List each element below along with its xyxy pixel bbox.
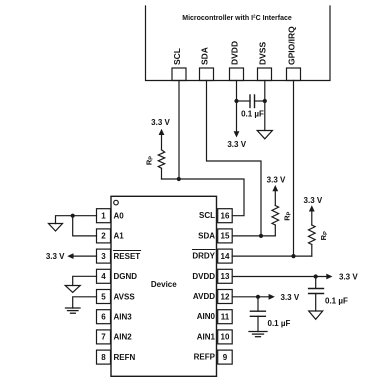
svg-text:RESET: RESET: [114, 252, 141, 261]
svg-text:DVDD: DVDD: [230, 41, 240, 65]
svg-text:AIN2: AIN2: [114, 333, 133, 342]
svg-text:A0: A0: [114, 212, 125, 221]
svg-text:3.3 V: 3.3 V: [304, 196, 323, 205]
svg-text:AVSS: AVSS: [114, 292, 136, 301]
svg-text:9: 9: [223, 353, 228, 362]
svg-text:0.1 µF: 0.1 µF: [268, 319, 291, 328]
svg-text:3.3 V: 3.3 V: [267, 176, 286, 185]
svg-text:2: 2: [101, 232, 106, 241]
svg-text:AVDD: AVDD: [193, 292, 215, 301]
svg-text:REFN: REFN: [114, 353, 136, 362]
svg-text:11: 11: [221, 313, 230, 322]
svg-text:DGND: DGND: [114, 272, 138, 281]
svg-text:SDA: SDA: [200, 47, 210, 65]
svg-text:AIN1: AIN1: [197, 332, 216, 341]
svg-text:1: 1: [101, 212, 106, 221]
svg-text:SCL: SCL: [172, 48, 182, 65]
svg-text:3: 3: [101, 252, 106, 261]
svg-text:6: 6: [101, 313, 106, 322]
svg-text:3.3 V: 3.3 V: [151, 118, 170, 127]
svg-text:10: 10: [221, 333, 230, 342]
svg-text:A1: A1: [114, 232, 125, 241]
svg-text:16: 16: [221, 212, 230, 221]
svg-text:AIN3: AIN3: [114, 313, 133, 322]
svg-text:DVDD: DVDD: [192, 272, 215, 281]
svg-text:Microcontroller with I2C Inter: Microcontroller with I2C Interface: [182, 14, 292, 23]
svg-text:3.3 V: 3.3 V: [339, 272, 358, 281]
svg-text:12: 12: [221, 292, 230, 301]
svg-text:GPIO/IRQ: GPIO/IRQ: [287, 26, 297, 65]
svg-text:4: 4: [101, 272, 106, 281]
svg-text:DVSS: DVSS: [258, 42, 268, 65]
svg-text:REFP: REFP: [194, 353, 216, 362]
svg-text:AIN0: AIN0: [197, 312, 216, 321]
svg-text:0.1 µF: 0.1 µF: [325, 297, 348, 306]
svg-text:DRDY: DRDY: [192, 252, 215, 261]
svg-text:0.1 µF: 0.1 µF: [241, 110, 264, 119]
svg-text:Device: Device: [151, 280, 177, 289]
svg-text:8: 8: [101, 353, 106, 362]
svg-text:14: 14: [221, 252, 230, 261]
svg-text:3.3 V: 3.3 V: [281, 293, 300, 302]
svg-text:7: 7: [101, 333, 106, 342]
svg-text:3.3 V: 3.3 V: [46, 252, 65, 261]
svg-text:SCL: SCL: [199, 211, 215, 220]
svg-text:5: 5: [101, 292, 106, 301]
svg-text:SDA: SDA: [198, 231, 215, 240]
svg-text:15: 15: [221, 232, 230, 241]
svg-text:13: 13: [221, 272, 230, 281]
svg-text:3.3 V: 3.3 V: [227, 140, 246, 149]
